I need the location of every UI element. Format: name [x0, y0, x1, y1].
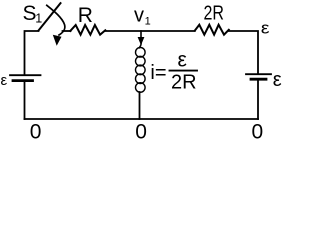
node v1 current arrowhead [138, 37, 145, 45]
wire right-battery-to-bottom [257, 81, 259, 119]
switch S1 closing arrowhead [53, 35, 62, 46]
inductor L coil loop 3 [136, 65, 146, 75]
node v1 current arrow shaft [140, 31, 142, 39]
wire switch-to-R [63, 30, 71, 32]
battery left: long plate [10, 74, 41, 76]
svg-text:0: 0 [30, 120, 42, 143]
battery right: short plate [251, 78, 266, 81]
svg-text:1: 1 [35, 11, 42, 25]
svg-text:0: 0 [252, 120, 264, 143]
wire inductor-to-bottom [139, 92, 141, 119]
svg-text:R: R [78, 4, 93, 27]
svg-text:ε: ε [273, 69, 282, 91]
bottom wire [25, 118, 259, 120]
svg-text:ε: ε [261, 19, 270, 37]
svg-text:2R: 2R [204, 3, 225, 25]
wire R-to-2R through node v1 [105, 30, 195, 32]
svg-text:v: v [134, 5, 144, 27]
resistor R [70, 25, 105, 35]
battery right: long plate [246, 73, 271, 75]
wire top-left switch lead [25, 31, 39, 74]
svg-text:1: 1 [145, 16, 151, 28]
battery left: short plate [13, 79, 33, 82]
inductor L coil loop 1 [136, 48, 146, 58]
inductor L coil loop 4 [136, 74, 146, 84]
inductor L coil loop 2 [136, 56, 146, 66]
switch S1 closing arrow arc [47, 5, 65, 35]
inductor L coil loop 5 [136, 83, 146, 93]
wire arrow-to-coil lead-in [139, 43, 141, 48]
switch S1 blade [39, 3, 61, 30]
svg-text:2R: 2R [171, 71, 197, 93]
wire 2R-to-right-corner [229, 31, 258, 73]
svg-text:0: 0 [135, 120, 147, 143]
svg-text:ε: ε [1, 72, 8, 89]
svg-text:i=: i= [150, 62, 166, 84]
resistor 2R [195, 25, 229, 35]
wire left-battery-to-bottom [24, 82, 26, 119]
fraction bar of i label [170, 70, 198, 72]
svg-text:ε: ε [178, 48, 187, 71]
